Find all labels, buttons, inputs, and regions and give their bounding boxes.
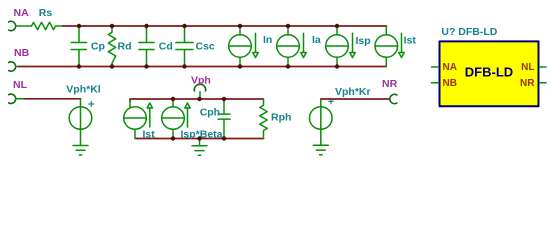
svg-text:U? DFB-LD: U? DFB-LD — [441, 26, 497, 38]
svg-text:NB: NB — [443, 78, 457, 89]
pin NL — [540, 66, 547, 68]
ground (below Vph*Kl) — [73, 129, 88, 155]
svg-text:NR: NR — [520, 78, 535, 89]
junction dots NB rail — [77, 64, 339, 68]
svg-text:Vph*Kr: Vph*Kr — [335, 86, 371, 98]
current source Ist (photon) — [124, 101, 153, 139]
capacitor Csc — [176, 26, 193, 67]
wire NA lead — [16, 25, 32, 27]
wire subcircuit top rail — [130, 99, 264, 101]
current source In — [229, 26, 259, 67]
node NL — [9, 94, 16, 103]
node Vph — [194, 84, 205, 91]
junction dots top rail — [77, 24, 339, 28]
node NB — [9, 62, 16, 71]
resistor Rd — [108, 26, 115, 67]
node NR — [390, 94, 397, 103]
ground (subcircuit) — [192, 139, 207, 156]
svg-text:NL: NL — [13, 79, 28, 91]
svg-text:Ist: Ist — [143, 129, 156, 141]
svg-text:NL: NL — [521, 62, 534, 73]
current source Ia — [277, 26, 307, 67]
pin NA — [432, 66, 439, 68]
node NA — [9, 21, 16, 30]
junction dots subcircuit — [171, 97, 226, 141]
wire Vph stub — [199, 92, 201, 99]
ground (below Vph*Kr) — [313, 129, 328, 155]
svg-text:Ist: Ist — [404, 35, 417, 47]
component U? DFB-LD box — [440, 41, 539, 106]
svg-text:NR: NR — [382, 78, 398, 90]
wire NB lead — [16, 66, 19, 68]
svg-text:Isp: Isp — [356, 35, 371, 47]
svg-text:NA: NA — [14, 7, 30, 19]
svg-text:Csc: Csc — [196, 41, 215, 53]
wire NL — [16, 98, 24, 100]
wire subcircuit bottom rail — [136, 138, 264, 140]
svg-text:Vph: Vph — [191, 75, 211, 87]
svg-text:DFB-LD: DFB-LD — [465, 65, 513, 80]
wire NR — [321, 98, 390, 100]
resistor Rph — [260, 99, 267, 139]
pin NB — [432, 82, 439, 84]
current source Ist — [375, 26, 404, 67]
svg-text:Cph: Cph — [200, 107, 220, 119]
current source Isp — [326, 26, 356, 67]
svg-text:In: In — [263, 34, 272, 46]
svg-text:NA: NA — [443, 62, 457, 73]
svg-text:Rph: Rph — [271, 112, 291, 124]
svg-text:NB: NB — [14, 47, 30, 59]
voltage source Vph*Kr — [310, 100, 333, 130]
svg-text:Cp: Cp — [91, 41, 105, 53]
voltage source Vph*Kl — [69, 100, 92, 130]
pin NR — [540, 82, 547, 84]
svg-text:Vph*Kl: Vph*Kl — [66, 84, 101, 96]
capacitor Cd — [139, 26, 154, 67]
wire top rail — [63, 25, 387, 27]
wire NB rail — [19, 66, 387, 68]
svg-text:Cd: Cd — [159, 41, 173, 53]
resistor Rs — [32, 22, 64, 29]
svg-text:Ia: Ia — [312, 34, 321, 46]
svg-text:Rd: Rd — [118, 41, 132, 53]
svg-text:Rs: Rs — [39, 7, 53, 19]
capacitor Cp — [71, 26, 86, 67]
capacitor Cph — [218, 99, 230, 139]
current source Isp*Beta — [162, 99, 191, 139]
